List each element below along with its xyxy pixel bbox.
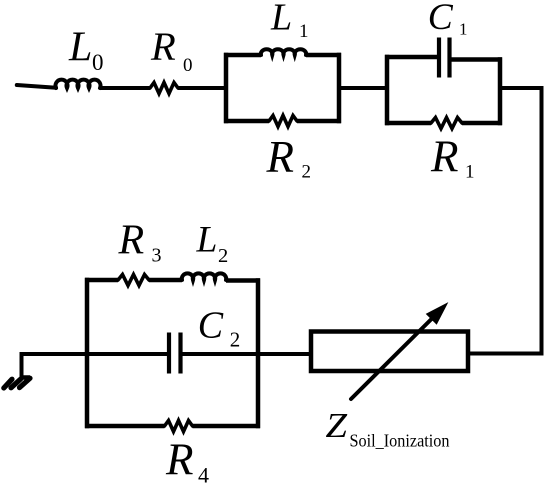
variable impedance Z box — [311, 332, 468, 372]
box1 top edge right segment — [306, 53, 341, 58]
label R2 — [266, 132, 312, 183]
wire ground to C2 left plate — [20, 352, 168, 356]
label L1 — [270, 0, 309, 42]
resistor R2 — [269, 116, 297, 127]
svg-text:1: 1 — [459, 20, 468, 39]
svg-text:R: R — [266, 132, 295, 182]
box3 bottom edge right segment — [193, 424, 261, 429]
svg-text:1: 1 — [299, 21, 309, 42]
box1 right edge — [337, 53, 342, 124]
capacitor C1 right plate — [447, 38, 451, 78]
box3 right edge — [256, 278, 261, 428]
resistor R1 — [431, 118, 462, 129]
wire box1 to box2 — [339, 86, 387, 90]
label C1 — [428, 0, 468, 39]
label R4 — [165, 435, 209, 486]
wire box2 to right rail — [500, 86, 542, 90]
svg-text:2: 2 — [230, 328, 241, 352]
inductor L2 — [182, 273, 226, 280]
svg-text:L: L — [68, 25, 92, 71]
label L0 — [68, 25, 104, 76]
box3 left edge — [85, 278, 90, 429]
wire R0 to box1 — [178, 86, 226, 90]
ground stub vertical — [20, 352, 24, 377]
box2 bottom edge left segment — [385, 121, 431, 126]
box3 top edge middle segment — [149, 278, 182, 283]
resistor R0 — [150, 83, 178, 94]
wire C2 right plate to Z box — [181, 352, 312, 356]
label Z Soil_Ionization — [326, 406, 450, 451]
label C2 — [198, 305, 241, 352]
resistor R4 — [165, 421, 193, 432]
resistor R3 — [118, 275, 149, 286]
svg-text:0: 0 — [183, 55, 193, 76]
wire input lead — [17, 85, 56, 88]
wire L0 to R0 — [100, 86, 150, 90]
svg-text:R: R — [150, 24, 176, 69]
box2 right edge — [498, 57, 503, 125]
svg-text:1: 1 — [465, 162, 475, 183]
capacitor C2 right plate — [178, 333, 182, 374]
inductor L0 — [56, 80, 101, 88]
svg-text:L: L — [270, 0, 292, 39]
svg-text:0: 0 — [92, 50, 104, 75]
svg-text:R: R — [165, 435, 194, 485]
svg-text:C: C — [198, 305, 224, 347]
capacitor C2 left plate — [167, 333, 171, 374]
svg-text:L: L — [196, 220, 218, 261]
svg-text:2: 2 — [302, 162, 312, 183]
svg-text:Soil_Ionization: Soil_Ionization — [350, 431, 450, 451]
ground symbol hatches — [4, 378, 30, 389]
wire Z box to right rail — [468, 352, 544, 356]
box1 top edge left segment — [224, 53, 261, 58]
svg-text:4: 4 — [198, 463, 209, 486]
box2 bottom edge right segment — [462, 121, 502, 126]
svg-text:C: C — [428, 0, 454, 38]
box1 bottom edge left segment — [224, 119, 269, 124]
box3 top edge right segment — [226, 278, 260, 283]
svg-text:2: 2 — [218, 245, 228, 267]
svg-text:R: R — [430, 132, 459, 182]
box1 left edge — [224, 53, 229, 124]
wire right rail vertical — [540, 86, 544, 356]
arrow head — [427, 305, 446, 324]
label R1 — [430, 132, 475, 183]
svg-text:Z: Z — [326, 406, 348, 445]
box2 top edge right segment — [450, 57, 503, 62]
inductor L1 — [261, 49, 306, 55]
label R0 — [150, 24, 193, 76]
svg-text:R: R — [118, 218, 145, 264]
arrow shaft through Z box — [351, 317, 434, 400]
label L2 — [196, 220, 229, 268]
box1 bottom edge right segment — [297, 119, 341, 124]
svg-text:3: 3 — [152, 245, 162, 267]
box2 left edge — [385, 55, 390, 126]
box3 bottom edge left segment — [85, 424, 165, 429]
box3 top edge left segment — [85, 278, 118, 283]
box2 top edge left segment — [385, 55, 439, 60]
label R3 — [118, 218, 162, 267]
capacitor C1 left plate — [437, 38, 441, 78]
